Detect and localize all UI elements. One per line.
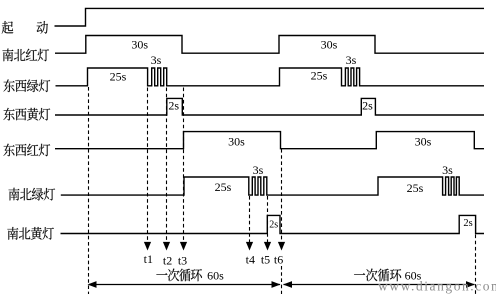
svg-text:2s: 2s: [269, 220, 278, 231]
svg-text:2s: 2s: [463, 218, 472, 229]
svg-text:30s: 30s: [321, 38, 338, 52]
svg-text:25s: 25s: [215, 180, 232, 194]
svg-text:3s: 3s: [346, 53, 357, 67]
svg-text:t6: t6: [274, 253, 283, 267]
svg-text:2s: 2s: [362, 98, 373, 112]
svg-text:t2: t2: [163, 254, 172, 268]
svg-text:t1: t1: [144, 252, 153, 266]
svg-text:2s: 2s: [168, 99, 179, 113]
svg-text:30s: 30s: [415, 134, 432, 148]
svg-text:3s: 3s: [253, 163, 264, 177]
svg-text:t3: t3: [178, 254, 187, 268]
svg-text:30s: 30s: [131, 38, 148, 52]
svg-text:60s: 60s: [207, 269, 224, 283]
svg-text:t5: t5: [261, 253, 270, 267]
svg-text:25s: 25s: [110, 70, 127, 84]
svg-text:3s: 3s: [151, 53, 162, 67]
svg-text:25s: 25s: [311, 69, 328, 83]
svg-text:30s: 30s: [228, 134, 245, 148]
svg-text:t4: t4: [246, 253, 255, 267]
svg-text:25s: 25s: [407, 181, 424, 195]
svg-text:3s: 3s: [442, 163, 453, 177]
svg-text:www.diangon.com: www.diangon.com: [378, 279, 496, 294]
